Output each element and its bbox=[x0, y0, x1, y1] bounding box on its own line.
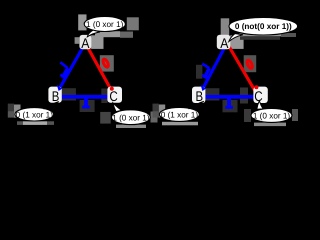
svg-text:0 (1 xor 1): 0 (1 xor 1) bbox=[161, 111, 199, 120]
svg-text:1 (0 xor 1): 1 (0 xor 1) bbox=[112, 113, 150, 122]
svg-text:0 (not(0 xor 1)): 0 (not(0 xor 1)) bbox=[235, 22, 292, 31]
svg-text:1 (0 xor 1): 1 (0 xor 1) bbox=[86, 20, 124, 29]
svg-text:1 (0 xor 1): 1 (0 xor 1) bbox=[253, 112, 291, 121]
svg-text:C: C bbox=[254, 88, 262, 104]
svg-text:A: A bbox=[81, 35, 90, 51]
svg-text:0 (1 xor 1): 0 (1 xor 1) bbox=[16, 110, 54, 119]
